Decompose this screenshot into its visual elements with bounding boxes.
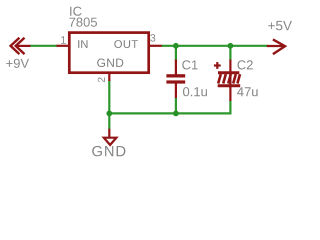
junction dot at C1 bottom	[173, 111, 179, 117]
IC value label 7805	[69, 18, 97, 27]
wire bottom ground net with corner up to C2	[109, 101, 230, 114]
C2 bottom pin	[229, 87, 231, 101]
wire GND riser from IC pin 2	[108, 81, 110, 130]
value 0.1u	[183, 87, 207, 96]
IC pin 1 stub	[57, 45, 71, 47]
C2 plus sign	[214, 64, 221, 66]
C1 top plate	[166, 74, 185, 77]
C1 top pin	[175, 60, 177, 75]
ground symbol	[104, 129, 117, 145]
label GND	[92, 146, 125, 156]
supply arrow +5V (right)	[267, 39, 285, 54]
label +9V	[6, 59, 29, 68]
pin name IN	[78, 40, 87, 48]
capacitor C2 (polarized)	[214, 60, 240, 102]
pin number 3	[150, 34, 155, 42]
C1 bottom pin	[175, 84, 177, 99]
value 47u	[237, 87, 258, 96]
wire net from +9V arrow to IC pin 1	[30, 45, 58, 47]
junction dot at C1 top	[173, 43, 179, 49]
pin number 1	[61, 36, 66, 44]
label C2	[238, 60, 253, 69]
label C1	[182, 60, 197, 69]
C1 bottom plate	[166, 80, 185, 83]
wire C1 bottom drop	[175, 98, 177, 114]
pin name GND	[97, 59, 123, 68]
C2 positive plate (hatched) top bar	[218, 71, 239, 74]
C2 top pin	[229, 60, 231, 89]
wire C2 top drop	[229, 46, 231, 60]
C2 hatch strokes	[218, 74, 240, 83]
wire net from IC pin 3 to +5V arrow	[162, 45, 269, 47]
IC pin 3 stub	[148, 45, 162, 47]
junction dot at GND riser on bottom net	[106, 111, 112, 117]
supply arrow +9V (double chevron, left)	[11, 38, 31, 54]
label +5V	[268, 21, 292, 30]
pin number 2 (rotated)	[98, 77, 105, 82]
wire C1 top drop	[175, 46, 177, 60]
capacitor C1	[166, 60, 185, 99]
IC U1 7805 regulator box	[69, 33, 148, 73]
IC pin 2 stub	[108, 73, 110, 81]
junction dot at C2 top	[228, 43, 234, 49]
IC name label IC	[70, 7, 81, 16]
C2 negative plate bar	[218, 84, 241, 87]
pin name OUT	[114, 40, 138, 48]
